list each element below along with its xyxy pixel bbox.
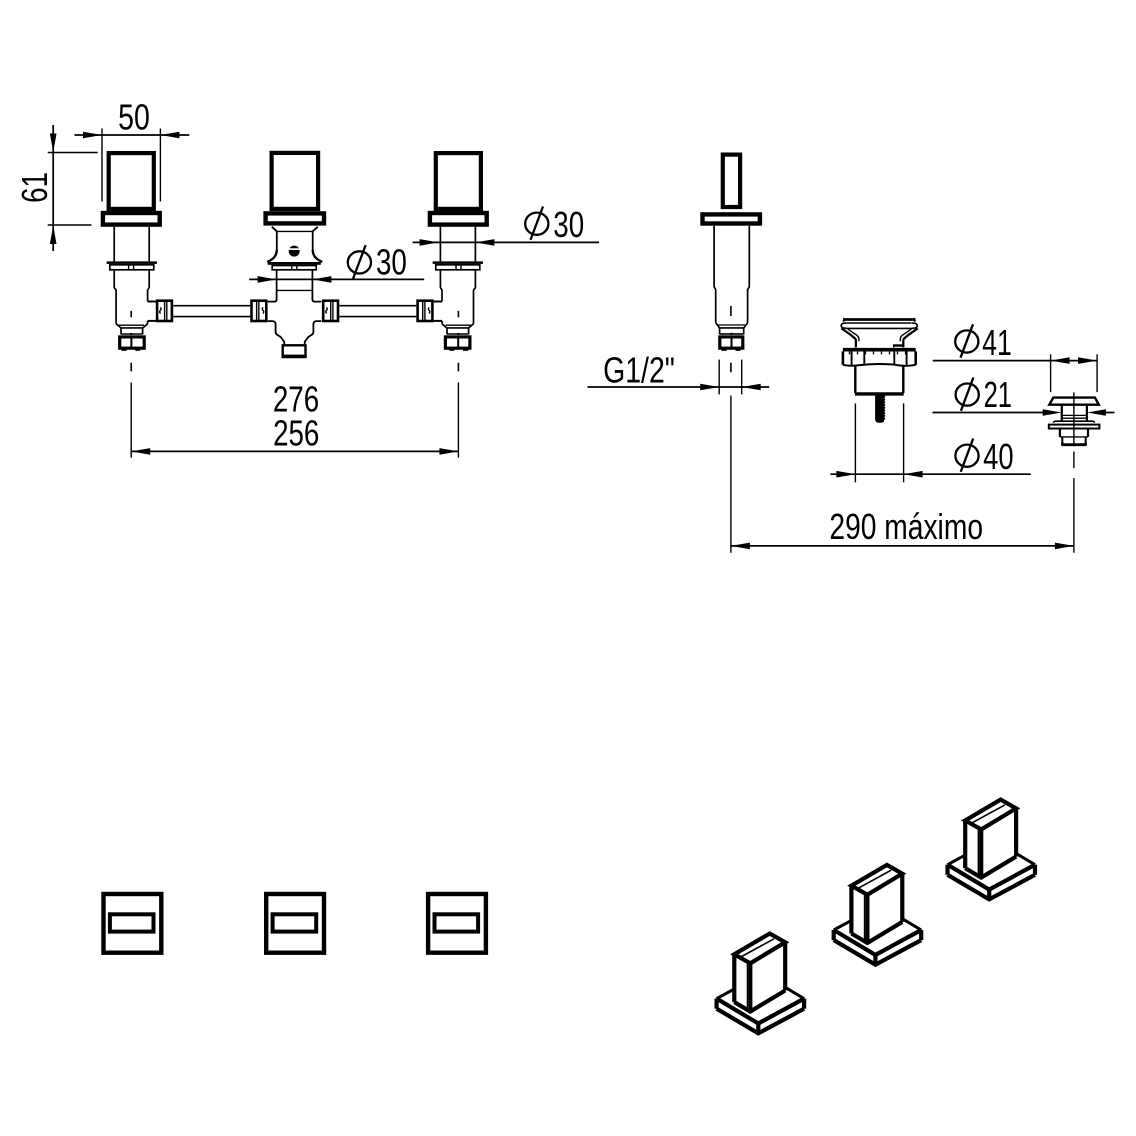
svg-text:290 máximo: 290 máximo xyxy=(829,506,983,547)
svg-text:40: 40 xyxy=(983,436,1013,477)
svg-text:30: 30 xyxy=(553,204,584,245)
svg-text:30: 30 xyxy=(376,242,407,283)
svg-text:41: 41 xyxy=(982,322,1012,363)
svg-text:61: 61 xyxy=(14,172,55,203)
svg-text:50: 50 xyxy=(118,96,150,137)
svg-text:21: 21 xyxy=(984,373,1012,415)
svg-text:256: 256 xyxy=(273,413,319,454)
svg-text:G1/2": G1/2" xyxy=(603,349,675,390)
